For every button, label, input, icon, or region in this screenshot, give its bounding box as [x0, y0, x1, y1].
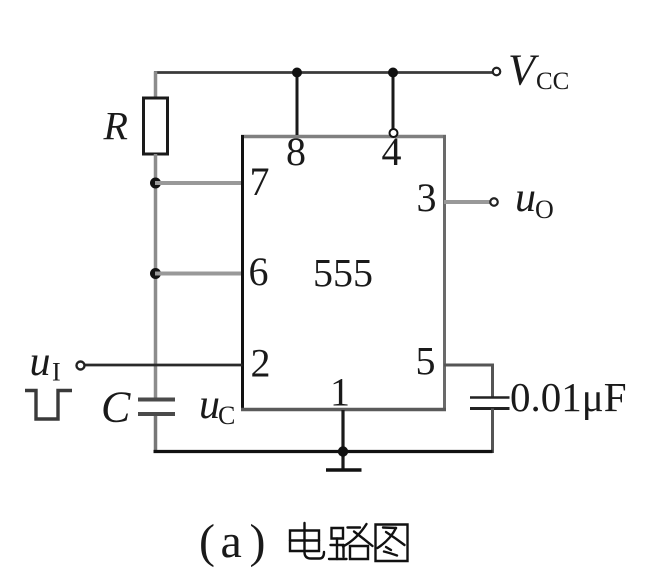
capacitor C bottom plate	[138, 412, 175, 416]
wire pin 8 vertical	[296, 73, 299, 136]
node junction dot at pin7 tap	[150, 178, 161, 189]
wire left vertical from resistor bottom to capacitor C	[154, 154, 158, 398]
node output terminal circle	[490, 198, 498, 206]
caption hanzi tu (picture)	[376, 525, 408, 562]
node input terminal circle	[77, 362, 85, 370]
capacitor C2 top plate	[470, 396, 510, 399]
svg-text:a: a	[221, 515, 242, 568]
wire pin 1 vertical to ground	[341, 410, 344, 469]
caption hanzi lu (road)	[329, 524, 373, 559]
svg-text:): )	[250, 515, 266, 568]
capacitor C top plate	[138, 398, 175, 402]
svg-text:C: C	[101, 383, 131, 432]
svg-text:C: C	[218, 401, 235, 430]
svg-text:5: 5	[416, 339, 436, 384]
node junction dot pin1/bottom rail	[338, 446, 348, 456]
wire pin 2 trigger input	[85, 364, 243, 367]
wire pin 7 horizontal	[155, 181, 242, 185]
svg-text:1: 1	[330, 370, 350, 415]
ground	[326, 468, 362, 472]
wire pin 6 horizontal	[155, 272, 242, 276]
svg-text:2: 2	[251, 341, 271, 386]
svg-text:CC: CC	[536, 68, 569, 95]
svg-text:R: R	[103, 104, 128, 149]
svg-text:(: (	[199, 515, 215, 568]
node junction dot at pin6 tap	[150, 268, 161, 279]
svg-text:4: 4	[382, 129, 402, 174]
555 IC box right edge	[443, 135, 446, 411]
node Vcc terminal circle	[493, 68, 501, 76]
pin 4 open circle (reset bubble)	[390, 129, 398, 137]
wire top rail (Vcc rail)	[154, 71, 493, 74]
node junction dot pin4/rail	[388, 68, 398, 78]
caption hanzi dian (electric)	[290, 523, 324, 559]
wire pin 5 vertical down to capacitor	[491, 365, 494, 397]
wire pin 3 output	[444, 200, 490, 204]
svg-text:u: u	[199, 382, 220, 428]
svg-text:I: I	[52, 358, 61, 387]
svg-text:8: 8	[286, 129, 306, 174]
svg-text:u: u	[30, 339, 51, 385]
wire bottom rail	[154, 450, 493, 453]
svg-text:6: 6	[249, 249, 269, 294]
input pulse waveform icon	[25, 391, 72, 420]
555 IC box bottom edge	[241, 408, 446, 412]
wire below capacitor C2 to bottom rail	[491, 409, 494, 454]
wire below capacitor C to bottom rail	[154, 416, 158, 453]
wire pin 5 horizontal	[444, 364, 494, 367]
resistor R body	[144, 98, 168, 154]
svg-text:555: 555	[313, 251, 373, 296]
op-amp U1 555 IC box top edge	[241, 135, 446, 139]
wire left vertical from rail to resistor top	[154, 72, 158, 99]
svg-text:3: 3	[417, 175, 437, 220]
wire pin 4 vertical	[392, 73, 395, 130]
node junction dot pin8/rail	[292, 68, 302, 78]
svg-text:u: u	[515, 175, 536, 221]
svg-text:0.01μF: 0.01μF	[510, 374, 627, 420]
capacitor C2 bottom plate	[470, 407, 510, 410]
555 IC box left edge	[241, 135, 244, 411]
svg-text:7: 7	[250, 159, 270, 204]
svg-text:O: O	[535, 195, 554, 224]
